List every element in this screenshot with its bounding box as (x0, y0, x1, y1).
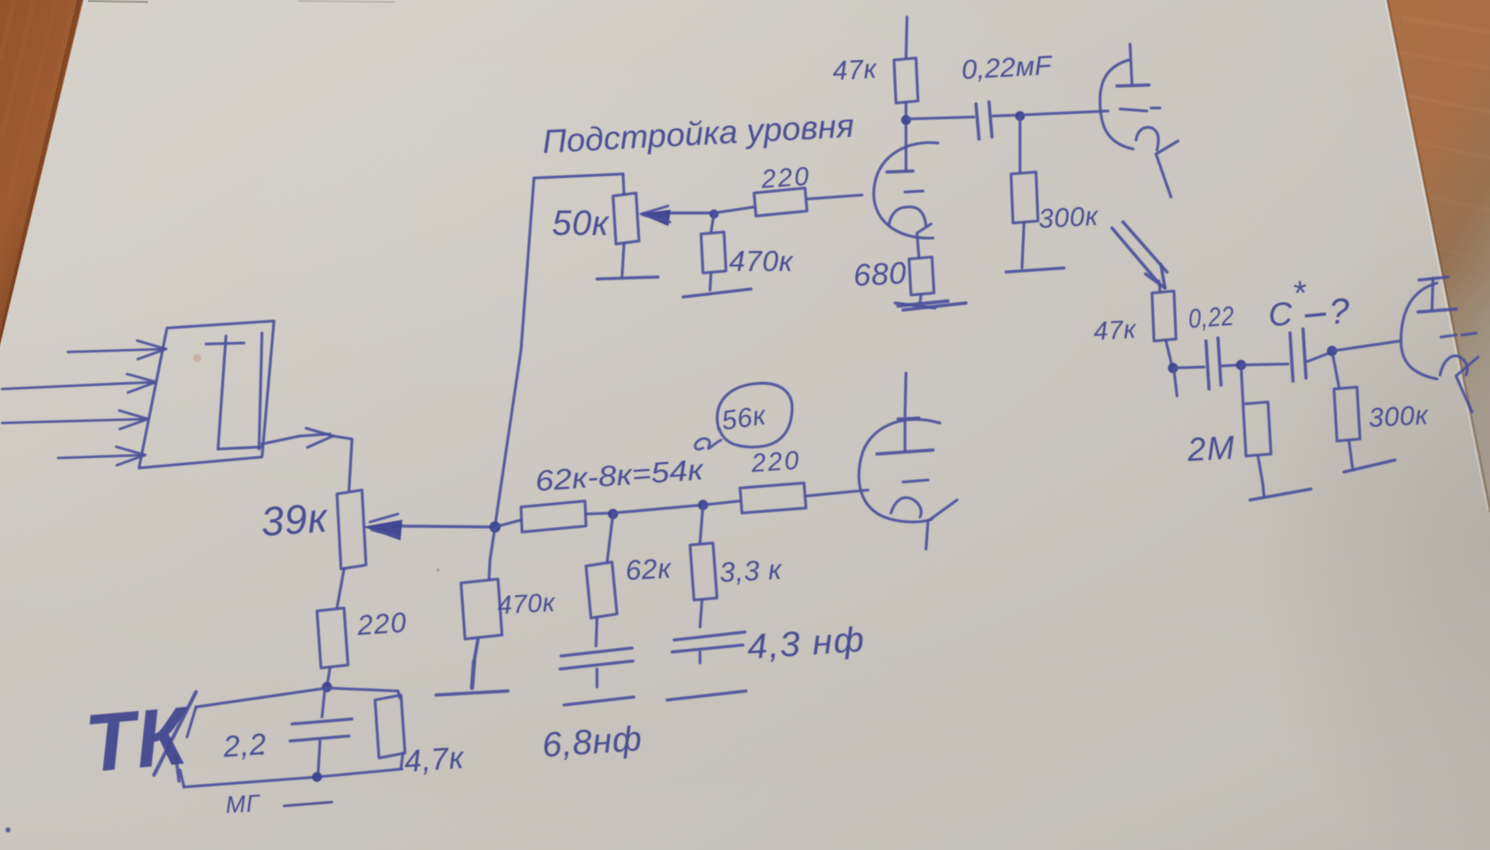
svg-text:C: C (1267, 295, 1294, 333)
svg-text:680: 680 (853, 255, 908, 293)
svg-text:470к: 470к (729, 246, 794, 278)
svg-text:2M: 2M (1185, 429, 1236, 469)
svg-text:МГ: МГ (225, 790, 262, 819)
svg-text:62к: 62к (625, 553, 674, 586)
svg-text:47к: 47к (832, 54, 879, 86)
svg-text:0,22: 0,22 (1187, 301, 1235, 334)
svg-text:300к: 300к (1038, 201, 1100, 234)
svg-text:300к: 300к (1368, 400, 1430, 433)
svg-text:47к: 47к (1093, 314, 1138, 346)
svg-text:220: 220 (759, 161, 811, 194)
svg-text:56к: 56к (720, 400, 769, 436)
svg-text:4,7к: 4,7к (403, 740, 466, 779)
svg-text:50к: 50к (552, 204, 610, 243)
svg-text:220: 220 (749, 445, 801, 478)
svg-text:39к: 39к (259, 494, 330, 545)
svg-text:4,3 нф: 4,3 нф (746, 620, 866, 667)
svg-text:0,22мF: 0,22мF (961, 50, 1054, 85)
svg-text:2,2: 2,2 (221, 728, 267, 764)
svg-text:6,8нф: 6,8нф (541, 719, 643, 765)
svg-text:3,3 к: 3,3 к (719, 554, 784, 588)
svg-text:470к: 470к (497, 587, 557, 620)
svg-text:?: ? (1328, 290, 1351, 332)
svg-text:ТК: ТК (82, 690, 196, 790)
svg-text:220: 220 (355, 607, 408, 641)
